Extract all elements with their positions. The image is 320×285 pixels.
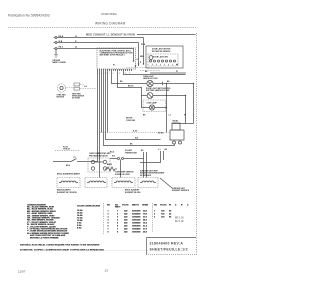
terminal L1 bbox=[54, 37, 56, 39]
svg-text:CONV FAN: CONV FAN bbox=[126, 119, 136, 122]
svg-text:13: 13 bbox=[105, 269, 109, 273]
svg-text:120/3000: 120/3000 bbox=[132, 223, 141, 225]
svg-text:NATIONAL ELECTRICAL CODES REQU: NATIONAL ELECTRICAL CODES REQUIRE THIS R… bbox=[20, 243, 100, 246]
wire to door switch bbox=[118, 71, 142, 96]
svg-text:L1: L1 bbox=[137, 59, 139, 61]
svg-text:L1: L1 bbox=[75, 36, 77, 38]
heating element E3 surface unit bbox=[138, 169, 165, 187]
svg-text:BU 1.02: BU 1.02 bbox=[175, 220, 184, 223]
sensor RTD1 oven temp sensor bbox=[112, 172, 135, 188]
svg-text:MADE 1 A WIRE: MADE 1 A WIRE bbox=[53, 61, 67, 64]
wire oven light feed bbox=[112, 71, 147, 84]
svg-text:VOLTS: VOLTS bbox=[122, 204, 129, 206]
svg-text:DU FOUR: DU FOUR bbox=[72, 98, 81, 100]
connector J2 vent fan switch bbox=[72, 83, 85, 100]
svg-text:SEE SHEET 2/VOIR FEUILLE 2: SEE SHEET 2/VOIR FEUILLE 2 bbox=[100, 55, 125, 57]
thermostat TH2 hi-limit bbox=[110, 150, 144, 178]
header rule bbox=[8, 27, 196, 29]
svg-text:W-2: W-2 bbox=[112, 156, 115, 158]
wire MDL bottom dotted bbox=[140, 70, 160, 72]
svg-text:W-4: W-4 bbox=[135, 137, 138, 140]
svg-text:P1: P1 bbox=[74, 157, 76, 159]
svg-text:NO: NO bbox=[154, 204, 157, 206]
thermostat TH1 oven thermostat bbox=[88, 152, 111, 172]
title block bbox=[147, 238, 197, 255]
svg-text:230/2600: 230/2600 bbox=[132, 214, 141, 216]
wire L1 bbox=[57, 37, 144, 39]
svg-text:SHEET/FEUILLE:1/2: SHEET/FEUILLE:1/2 bbox=[150, 248, 188, 252]
svg-text:PRE-HEAT INDICATOR: PRE-HEAT INDICATOR bbox=[89, 154, 108, 157]
wire door switch left loop bbox=[142, 96, 150, 108]
svg-text:BROIL ELEMENT/ELEMENT: BROIL ELEMENT/ELEMENT bbox=[57, 174, 81, 176]
svg-text:ATTENTION: COUPEZ L ALIMENTATI: ATTENTION: COUPEZ L ALIMENTATION AVANT D… bbox=[20, 248, 104, 251]
svg-text:Publication No 5995424303: Publication No 5995424303 bbox=[8, 14, 50, 18]
node junctions bbox=[133, 60, 134, 61]
svg-text:230/1500: 230/1500 bbox=[132, 211, 141, 213]
terminal N bbox=[54, 42, 56, 44]
svg-text:P1 A: P1 A bbox=[141, 43, 146, 46]
svg-text:100/1800: 100/1800 bbox=[132, 226, 141, 228]
wire lamp return drop bbox=[166, 84, 168, 133]
wire L2 bbox=[57, 48, 134, 50]
svg-text:OVEN LAMP: OVEN LAMP bbox=[147, 102, 158, 105]
svg-text:L2: L2 bbox=[75, 46, 77, 48]
resistor R1 bake indicator bbox=[105, 163, 117, 171]
svg-text:DE SURFACE: DE SURFACE bbox=[140, 174, 152, 177]
svg-text:BK-XX: BK-XX bbox=[128, 86, 134, 88]
motor M2 oven vent fan bbox=[57, 84, 67, 99]
svg-text:P1: P1 bbox=[113, 65, 115, 67]
legend separator 1 bbox=[103, 203, 105, 234]
svg-text:ELEMENT DE CUISSON: ELEMENT DE CUISSON bbox=[57, 192, 77, 194]
wire lamp to right bbox=[153, 83, 193, 85]
svg-text:ELEMENT SURFACE: ELEMENT SURFACE bbox=[172, 189, 190, 192]
svg-text:MED CONOIST L1 SENOIST BU POW: MED CONOIST L1 SENOIST BU POW bbox=[86, 33, 135, 37]
wire relay top bbox=[172, 123, 194, 125]
wire L1 drop bbox=[143, 38, 145, 65]
svg-text:DOOR LATCH SW: DOOR LATCH SW bbox=[153, 55, 168, 58]
legend column 1 bbox=[27, 204, 69, 239]
parts table 1 bbox=[107, 203, 149, 233]
svg-text:MDL: MDL bbox=[140, 56, 144, 58]
wire fan dotted bbox=[66, 85, 84, 88]
heating element E2 broil bbox=[85, 178, 141, 194]
svg-text:VOLTS: VOLTS bbox=[160, 204, 167, 206]
wire harness drop to switch bbox=[88, 161, 98, 163]
heating element E1 bake bbox=[57, 174, 81, 194]
svg-text:THERMOSTAT: THERMOSTAT bbox=[125, 151, 138, 154]
svg-text:COLOR CODE/COULEUR: COLOR CODE/COULEUR bbox=[77, 206, 101, 208]
svg-text:L-1: L-1 bbox=[169, 115, 172, 117]
svg-text:4 GA: 4 GA bbox=[77, 227, 82, 230]
motor M1 door latch (MDL) assembly bbox=[140, 43, 183, 68]
switch S2 door light bbox=[146, 88, 171, 98]
wire N drop bbox=[138, 43, 140, 67]
wire diagonal surface bbox=[160, 178, 172, 188]
wire N bbox=[57, 42, 139, 44]
wire mid run BK bbox=[174, 144, 176, 146]
legend column 2 bbox=[77, 206, 101, 230]
svg-text:RELAY: RELAY bbox=[173, 120, 180, 123]
relay K1 oven vent bbox=[158, 120, 184, 145]
wire top bus bbox=[137, 34, 196, 36]
svg-text:SONDE DU FOUR: SONDE DU FOUR bbox=[115, 174, 130, 176]
wire to MDL bbox=[124, 71, 186, 75]
wire right bottom drops bbox=[140, 151, 164, 163]
svg-text:MOTEUR: MOTEUR bbox=[57, 97, 65, 99]
controller U1 electronic oven control (EOC) bbox=[97, 48, 136, 69]
svg-text:BK-4: BK-4 bbox=[66, 164, 70, 167]
wire door switch right bbox=[153, 96, 186, 124]
parts table 2 bbox=[154, 203, 189, 218]
svg-text:NO: NO bbox=[107, 204, 110, 206]
svg-text:MOTEUR DE VERROU: MOTEUR DE VERROU bbox=[152, 51, 171, 53]
lamp DS2 interior oven lamp bbox=[143, 100, 167, 112]
svg-text:ELEMENT DE GRIL: ELEMENT DE GRIL bbox=[125, 192, 141, 194]
svg-text:RD-4: RD-4 bbox=[110, 151, 114, 154]
svg-text:BAKE: BAKE bbox=[107, 163, 113, 166]
svg-text:120/2000: 120/2000 bbox=[132, 229, 141, 231]
fold line right bbox=[196, 33, 198, 255]
ground bbox=[53, 50, 67, 65]
wire surface feeds bbox=[144, 152, 147, 178]
EOC pin numbers bbox=[97, 73, 131, 75]
wire right drop A bbox=[193, 84, 195, 124]
wire dotted EOC bottom bbox=[126, 67, 150, 69]
svg-text:OHMS: OHMS bbox=[142, 204, 149, 206]
svg-text:100/1200: 100/1200 bbox=[132, 220, 141, 222]
svg-text:WIRING DIAGRAM: WIRING DIAGRAM bbox=[95, 22, 126, 26]
svg-text:318048400 REV:A: 318048400 REV:A bbox=[150, 241, 184, 245]
wire dotted mid run bbox=[100, 132, 170, 134]
wire L2 drop bbox=[133, 49, 135, 62]
svg-text:W-B: W-B bbox=[59, 41, 63, 43]
EOC pins bbox=[98, 69, 132, 71]
svg-text:CFEF366G: CFEF366G bbox=[101, 12, 118, 16]
svg-text:100/1500: 100/1500 bbox=[132, 232, 141, 234]
svg-text:W: W bbox=[169, 204, 171, 206]
note leader dots bbox=[93, 250, 149, 252]
svg-text:WATTS: WATTS bbox=[132, 203, 140, 206]
svg-text:LAMPE DU FOUR: LAMPE DU FOUR bbox=[143, 77, 158, 80]
svg-text:12: 12 bbox=[119, 73, 121, 75]
lamp DS1 oven light bbox=[143, 76, 158, 87]
wire MDL bottom bbox=[150, 72, 186, 74]
svg-text:11/07: 11/07 bbox=[18, 270, 26, 274]
svg-text:MONTRE LA PORTE FERMEE: MONTRE LA PORTE FERMEE bbox=[30, 236, 59, 239]
switch S1 door plunger bbox=[53, 159, 88, 162]
svg-text:P1: P1 bbox=[176, 71, 178, 73]
wire dotted left bbox=[55, 150, 80, 152]
svg-text:L-1: L-1 bbox=[158, 149, 161, 151]
wire harness bundle bbox=[98, 71, 175, 178]
svg-text:120/2500: 120/2500 bbox=[132, 217, 141, 219]
legend separator 2 bbox=[152, 203, 154, 232]
terminal L2 bbox=[54, 48, 56, 50]
svg-text:WATT: WATT bbox=[115, 206, 121, 209]
svg-text:RD-C: RD-C bbox=[59, 46, 64, 48]
svg-text:BK-A: BK-A bbox=[59, 35, 64, 38]
